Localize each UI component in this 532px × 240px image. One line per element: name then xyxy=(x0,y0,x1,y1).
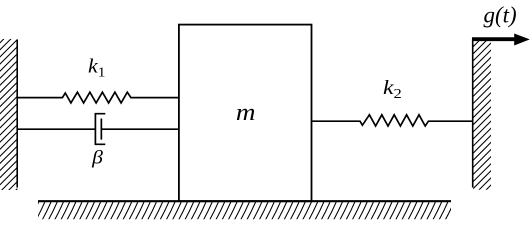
svg-text:m: m xyxy=(236,98,256,125)
svg-text:β: β xyxy=(91,147,104,168)
svg-text:g(t): g(t) xyxy=(484,2,517,27)
